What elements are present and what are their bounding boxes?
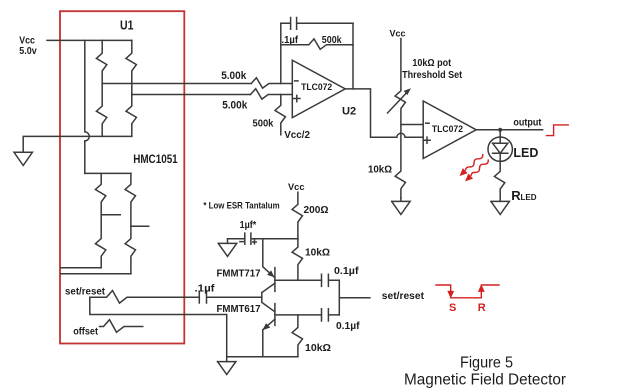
U1 sensor package box (red): [60, 11, 184, 343]
coupling capacitor .1uf (set/reset): [199, 291, 261, 303]
lower bridge left tap stub: [101, 214, 120, 216]
bridge resistor (lower bridge, right-top): [125, 173, 135, 226]
svg-text:0.1µf: 0.1µf: [334, 266, 359, 277]
op-amp U2a non-inverting input mark: [294, 95, 300, 101]
capacitor 0.1uf (lower): [322, 309, 340, 321]
svg-text:10kΩ: 10kΩ: [368, 165, 392, 176]
resistor 500k to Vcc/2: [275, 95, 285, 135]
tantalum polarity marks: [240, 240, 256, 244]
svg-text:Figure 5: Figure 5: [460, 355, 513, 372]
svg-text:0.1µf: 0.1µf: [336, 321, 360, 332]
wire lower bridge top rail: [85, 172, 131, 174]
svg-text:5.00k: 5.00k: [221, 70, 247, 82]
LED emission wavy arrow (lower, red): [463, 157, 491, 184]
potentiometer wiper arrow: [388, 92, 408, 113]
svg-text:10kΩ: 10kΩ: [305, 343, 331, 354]
set/reset waveform S pulse (red): [436, 285, 499, 298]
bridge resistor (HMC1051 upper bridge, right-bottom): [126, 95, 136, 137]
svg-text:.1µf: .1µf: [195, 283, 216, 294]
wire feedback right leg: [352, 23, 354, 89]
ground (tantalum): [218, 239, 236, 257]
svg-text:TLC072: TLC072: [432, 124, 463, 135]
ground (driver): [218, 362, 236, 375]
wire pot tap to comparator inverting input: [401, 124, 423, 126]
svg-text:S: S: [449, 302, 456, 314]
svg-text:TLC072: TLC072: [301, 82, 332, 93]
wire upper bridge bottom rail to ground: [23, 136, 132, 152]
svg-text:output: output: [513, 116, 541, 128]
wire ground rail of driver: [227, 357, 298, 362]
svg-text:5.00k: 5.00k: [222, 100, 248, 112]
resistor 200 ohm: [292, 192, 302, 238]
set/reset strap resistance: [90, 291, 200, 304]
offset strap resistance: [100, 320, 143, 333]
feedback capacitor .1uf: [281, 18, 353, 30]
svg-text:HMC1051: HMC1051: [133, 154, 178, 166]
LED emission wavy arrow (upper, red): [457, 152, 485, 179]
svg-text:Vcc/2: Vcc/2: [284, 130, 310, 141]
capacitor 0.1uf (upper): [322, 274, 340, 286]
svg-text:U1: U1: [120, 19, 133, 33]
wire bridge output plus (upper): [102, 83, 251, 85]
svg-text:200Ω: 200Ω: [304, 205, 329, 216]
ground (below threshold divider): [392, 198, 410, 214]
svg-text:FMMT617: FMMT617: [217, 304, 261, 315]
bridge resistor (lower bridge, left-top): [95, 173, 105, 214]
feedback resistor 500k: [281, 39, 353, 49]
op-amp U2a TLC072 (instrumentation amp): [292, 60, 345, 117]
bridge resistor (HMC1051 upper bridge, left-bottom): [96, 84, 106, 137]
resistor 10k (discharge): [292, 315, 302, 357]
svg-text:R: R: [478, 302, 486, 314]
ground (below RLED): [491, 201, 509, 214]
svg-text:LED: LED: [513, 146, 538, 160]
op-amp U2b non-inverting input mark: [424, 137, 430, 143]
bridge resistor (HMC1051 upper bridge, right-top): [126, 40, 136, 94]
svg-text:10kΩ pot: 10kΩ pot: [412, 58, 451, 69]
wire set/reset return to ground: [90, 297, 227, 357]
bridge resistor (HMC1051 upper bridge, left-top): [96, 40, 106, 83]
svg-text:set/reset: set/reset: [65, 286, 106, 297]
resistor RLED: [494, 161, 504, 201]
node junction output/LED: [498, 128, 502, 132]
wire vertical Vcc feed to lower bridge (hops over ground rail): [85, 40, 90, 173]
wire lower bridge right leg to U1 edge: [61, 273, 131, 275]
svg-text:500k: 500k: [322, 35, 342, 46]
svg-text:FMMT717: FMMT717: [217, 268, 261, 279]
resistor 10k (charge): [292, 239, 302, 281]
svg-text:1µf*: 1µf*: [240, 220, 257, 231]
svg-text:Magnetic Field Detector: Magnetic Field Detector: [404, 371, 566, 388]
wire lower bridge left leg to U1 edge: [61, 267, 101, 269]
wire U2a output to comparator (hops over pot wire): [345, 89, 423, 137]
transistor Q2 FMMT617 (NPN): [274, 304, 276, 326]
svg-text:U2: U2: [342, 106, 356, 118]
bridge resistor (lower bridge, left-bottom): [95, 215, 105, 268]
bridge resistor (lower bridge, right-bottom): [125, 226, 135, 273]
op-amp U2b inverting input mark: [426, 122, 429, 124]
op-amp U2a inverting input mark: [295, 80, 298, 82]
wire feedback left leg: [280, 23, 282, 83]
capacitor 1uf tantalum: [228, 233, 298, 244]
potentiometer 10k threshold: [395, 39, 405, 199]
wire comparator output: [476, 129, 542, 131]
svg-text:Threshold Set: Threshold Set: [402, 70, 463, 81]
lower bridge right tap stub: [131, 225, 149, 227]
svg-text:LED: LED: [521, 192, 537, 202]
svg-text:5.0v: 5.0v: [19, 46, 37, 57]
op-amp U2b TLC072 (comparator): [423, 101, 476, 159]
wire Vcc rail to bridge top: [47, 39, 132, 41]
ground (left of U1): [14, 152, 32, 165]
resistor 5.00k (upper input): [251, 78, 292, 88]
LED D1: [488, 137, 512, 161]
wire cap outputs joined to set/reset strap: [339, 280, 370, 315]
resistor 5.00k (lower input): [251, 89, 293, 99]
svg-text:set/reset: set/reset: [382, 291, 425, 302]
svg-text:* Low ESR Tantalum: * Low ESR Tantalum: [203, 201, 279, 211]
wire bridge output minus (lower): [132, 94, 251, 96]
svg-text:offset: offset: [73, 326, 98, 337]
transistor Q1 FMMT717 (PNP): [274, 268, 276, 292]
svg-text:500k: 500k: [253, 119, 274, 130]
svg-text:Vcc: Vcc: [390, 28, 407, 39]
output logic step symbol (red): [547, 125, 569, 136]
svg-text:10kΩ: 10kΩ: [305, 247, 330, 258]
svg-text:Vcc: Vcc: [288, 182, 305, 193]
